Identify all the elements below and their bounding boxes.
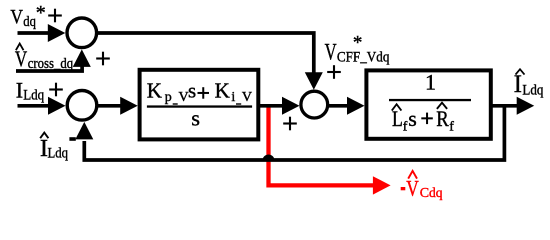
svg-text:V: V [406, 175, 419, 200]
svg-text:f: f [403, 120, 408, 135]
label V̂cross_dq [15, 44, 74, 72]
svg-text:s: s [188, 79, 196, 103]
svg-text:1: 1 [425, 70, 436, 95]
svg-text:K: K [147, 79, 162, 103]
summing junction S2 [67, 91, 97, 121]
plus sign ILdq into S2 [49, 83, 63, 97]
label ÎLdq feedback (bottom left) [40, 133, 69, 162]
wire hop (black jump over red wire) [263, 155, 275, 161]
plant block frame [366, 70, 490, 138]
wire S2 to PI block [96, 104, 122, 108]
svg-text:I: I [514, 71, 522, 98]
svg-text:s: s [408, 106, 417, 131]
svg-text:i: i [231, 90, 235, 105]
svg-text:f: f [449, 120, 454, 135]
arrowhead ILdq into S2 [48, 97, 66, 115]
wire Vdq input [18, 31, 50, 35]
label ILdq input [16, 77, 45, 103]
svg-text:s: s [191, 105, 200, 130]
wire V̂cross_dq into S1 [16, 66, 82, 72]
wire S3 to plant block [328, 104, 349, 108]
wire red tap from PI output node down and right (drawn under black) [269, 105, 391, 195]
wire feedback from output node to S2 (with hop over red wire) [84, 106, 504, 160]
svg-text:dq: dq [23, 14, 36, 30]
wire ILdq input [18, 104, 50, 108]
svg-text:Ldq: Ldq [23, 87, 44, 103]
svg-text:dq: dq [429, 185, 443, 200]
svg-text:I: I [16, 77, 23, 102]
PI block fraction bar [147, 105, 252, 107]
red label -V̂Cdq [401, 171, 443, 201]
wire S1 to S3 feedforward [96, 33, 314, 75]
plus sign Vdq into S1 [48, 9, 62, 23]
arrowhead feedback up into S2 [75, 122, 93, 139]
label VCFF_Vdq* feedforward [325, 33, 390, 66]
svg-text:K: K [215, 79, 230, 103]
svg-text:p: p [165, 90, 172, 105]
arrowhead into plant block [347, 97, 365, 115]
arrowhead output ILdq [517, 97, 535, 115]
svg-text:V: V [10, 6, 23, 28]
summing junction S3 [301, 91, 328, 118]
svg-text:CFF_Vdq: CFF_Vdq [337, 50, 390, 66]
svg-text:Ldq: Ldq [48, 146, 69, 162]
plant block denominator L̂f s + R̂f [392, 103, 455, 135]
svg-text:*: * [353, 33, 363, 54]
arrowhead PI out into S3 [282, 97, 300, 115]
plus sign VCFF into S3 [327, 65, 341, 79]
wire PI block to S3 [258, 104, 282, 108]
svg-text:cross_dq: cross_dq [28, 56, 74, 72]
arrowhead into PI block [120, 97, 138, 115]
plus sign V̂cross into S1 [96, 52, 110, 66]
minus sign feedback into S2 [69, 137, 75, 141]
plant block fraction bar [389, 99, 471, 101]
summing junction S1 [67, 18, 97, 48]
label Vdq* reference input [10, 2, 45, 30]
arrowhead Vdq into S1 [48, 24, 66, 42]
svg-text:C: C [420, 186, 429, 201]
PI controller block frame [140, 70, 259, 140]
PI block numerator Kp_V s + Ki_V [147, 79, 252, 105]
arrowhead V̂cross up into S1 [73, 49, 91, 67]
svg-text:V: V [242, 90, 252, 105]
label ÎLdq output (top right) [514, 69, 544, 98]
svg-text:*: * [36, 2, 46, 24]
svg-text:V: V [325, 40, 337, 65]
arrowhead feedforward down into S3 [305, 72, 323, 90]
svg-text:Ldq: Ldq [522, 82, 543, 98]
wire plant output [492, 104, 519, 108]
plus sign PI out into S3 [283, 117, 297, 131]
svg-text:R: R [436, 106, 449, 131]
